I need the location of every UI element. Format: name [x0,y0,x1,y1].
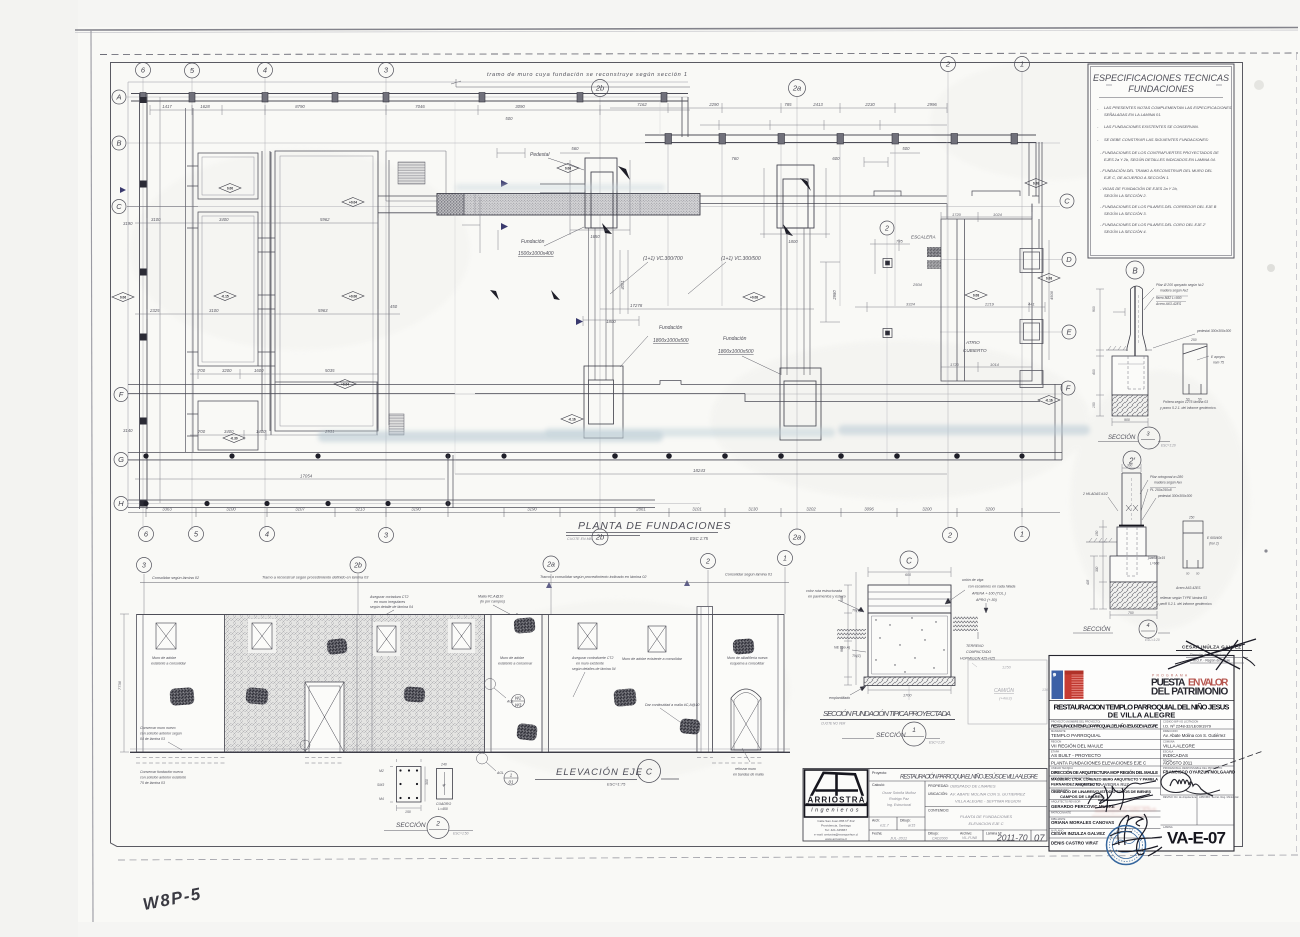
annotations [1155,283,1231,333]
rebar detail 2 [437,769,453,800]
svg-text:250: 250 [1190,338,1197,342]
blue scanner streak [318,184,1090,442]
svg-text:Ingenieros: Ingenieros [811,808,861,814]
svg-text:con solición anterior según: con solición anterior según [140,732,182,736]
svg-text:JUL-2011: JUL-2011 [889,836,907,841]
svg-text:1800x1000x500: 1800x1000x500 [718,349,754,355]
svg-text:Tramo a consolidar según proce: Tramo a consolidar según procedimiento i… [540,575,647,579]
svg-text:1500x1000x400: 1500x1000x400 [518,251,554,257]
svg-text:-0.16: -0.16 [568,417,575,421]
left vertical dim [120,614,129,752]
svg-text:3190: 3190 [123,221,133,226]
wall divider [542,615,567,753]
svg-text:con solición anterior existent: con solición anterior existente [140,776,186,780]
big right bay [549,615,698,753]
svg-text:Arch:: Arch: [872,819,880,823]
svg-text:EJE C, DE ACUERDO A SECCIÓN 1.: EJE C, DE ACUERDO A SECCIÓN 1. [1104,175,1170,180]
svg-text:Proyecto:: Proyecto: [872,771,887,775]
faint construction verticals [455,101,947,474]
svg-text:pedestal 300x300x300: pedestal 300x300x300 [1157,494,1192,498]
svg-text:300: 300 [425,779,429,785]
svg-text:Asegurar cortadura CT2: Asegurar cortadura CT2 [369,595,409,599]
svg-text:Av. Abate Molina con S. Gutiér: Av. Abate Molina con S. Gutiérrez [1163,733,1225,738]
svg-text:ESC=1:20: ESC=1:20 [1161,444,1176,448]
grid circles right [1060,194,1074,208]
svg-text:CESAR INZULZA GALVEZ: CESAR INZULZA GALVEZ [1051,831,1105,836]
svg-text:1800: 1800 [606,319,616,324]
dark signature over stamp [1112,814,1162,856]
svg-text:1: 1 [1020,60,1024,69]
svg-text:CAD2000: CAD2000 [932,837,948,841]
grid axis lines horizontal (faint) [127,97,1062,504]
svg-text:75 de lámina 03: 75 de lámina 03 [140,781,165,785]
svg-text:ESC=1:20: ESC=1:20 [929,741,945,745]
faint cajon box [968,660,1048,724]
svg-text:G: G [118,455,124,464]
svg-text:5963: 5963 [318,308,328,313]
connector wall x688 [682,97,688,137]
svg-text:SECCIÓN: SECCIÓN [396,820,426,829]
svg-text:ESCALERA: ESCALERA [911,235,936,240]
svg-text:2a: 2a [792,533,801,542]
svg-text:E apoyos: E apoyos [1211,355,1225,359]
svg-text:TEMPLO PARROQUIAL: TEMPLO PARROQUIAL [1051,733,1101,738]
svg-text:ELEVACION EJE C: ELEVACION EJE C [968,821,1003,826]
svg-text:Acero A63-42ES: Acero A63-42ES [1175,586,1201,590]
svg-text:3200: 3200 [222,368,232,373]
right corridor walls F-G [947,384,1062,460]
svg-text:pedestal 300x300x300: pedestal 300x300x300 [1196,329,1231,333]
svg-text:fierro 8Ø2 L=900: fierro 8Ø2 L=900 [1156,296,1182,300]
svg-text:AGOSTO 2011: AGOSTO 2011 [1163,761,1193,766]
svg-text:3200: 3200 [922,507,932,512]
svg-text:y pomo 5.2.1. del informe geot: y pomo 5.2.1. del informe geotécnico. [1159,406,1217,410]
svg-text:Dibujó:: Dibujó: [900,819,911,823]
svg-text:Acero A63-42ES: Acero A63-42ES [1155,302,1182,306]
svg-text:AV. ABATE MOLINA CON S. GUTIER: AV. ABATE MOLINA CON S. GUTIERREZ [949,792,1026,797]
svg-text:SECCIÓN: SECCIÓN [876,730,906,739]
svg-text:3140: 3140 [123,428,133,433]
svg-text:LAS PRESENTES NOTAS COMPLEMENT: LAS PRESENTES NOTAS COMPLEMENTAN LAS ESP… [1104,105,1232,110]
signature left col [1088,781,1156,812]
svg-text:4: 4 [265,530,269,539]
svg-text:3200: 3200 [985,507,995,512]
svg-text:Pedestal: Pedestal [530,152,550,158]
svg-text:INDICADAS: INDICADAS [1163,753,1188,758]
diamonds [112,164,1060,443]
pedestal 2b [540,158,617,228]
band left wall continuation [378,196,437,213]
svg-text:Conservar fundación nueva: Conservar fundación nueva [140,770,183,774]
atrium [941,142,1043,388]
svg-text:ESC=1:75: ESC=1:75 [607,782,626,787]
svg-text:DE VILLA ALEGRE: DE VILLA ALEGRE [1108,711,1176,720]
atrium dims [855,212,1049,372]
hatch base [1110,582,1157,609]
svg-text:A: A [115,93,121,102]
svg-text:3363: 3363 [162,507,172,512]
post [1127,286,1146,366]
svg-text:4001: 4001 [620,280,625,289]
svg-text:1024: 1024 [993,212,1003,217]
svg-text:Muro de adobe: Muro de adobe [500,656,524,660]
svg-text:TN(Z): TN(Z) [852,654,861,658]
logo box [805,770,868,817]
svg-text:PLANTA FUNDACIONES ELEVACIONES: PLANTA FUNDACIONES ELEVACIONES EJE C [1051,761,1146,766]
outer roof line [128,82,688,508]
pencil mark bottom left [141,884,203,914]
svg-text:ψ: ψ [443,782,446,787]
faint red stamp [1092,806,1156,816]
svg-text:17278: 17278 [630,303,643,308]
svg-text:emplantillado: emplantillado [829,696,850,700]
row C wall right of band [700,196,947,204]
svg-text:VII REGIÓN DEL MAULE: VII REGIÓN DEL MAULE [1051,743,1103,749]
svg-text:50: 50 [1186,572,1190,576]
svg-text:2: 2 [435,821,440,828]
svg-text:785: 785 [896,239,903,244]
svg-text:madera según №2: madera según №2 [1160,289,1188,293]
svg-text:CUOTE EN MM: CUOTE EN MM [567,537,593,541]
svg-text:900: 900 [1124,418,1130,422]
pilaster [697,607,713,753]
svg-text:7162: 7162 [637,102,647,107]
svg-text:3213: 3213 [355,507,365,512]
chile logo [1052,671,1064,700]
18243 line [455,473,947,475]
svg-text:150: 150 [1092,402,1096,408]
svg-text:300: 300 [1127,464,1133,468]
svg-text:450: 450 [390,304,398,309]
svg-text:17054: 17054 [300,474,313,479]
svg-text:e-mail: arriostra@manquehue.cl: e-mail: arriostra@manquehue.cl [814,833,858,837]
row A wall (double) [131,94,688,102]
svg-text:CAMPOS DE LINARES: CAMPOS DE LINARES [1060,794,1103,799]
grid axis lines vertical (faint) [143,72,1022,530]
svg-text:2a: 2a [546,562,555,569]
pedestal + footing [1117,527,1146,556]
svg-text:07: 07 [1034,833,1045,844]
svg-text:Muro de adobe existente a cons: Muro de adobe existente a consolidar [622,657,683,661]
top edge line [137,614,785,616]
svg-text:+0.04: +0.04 [341,382,349,386]
svg-text:405: 405 [1086,579,1090,585]
svg-text:según detalles de lámina 04: según detalles de lámina 04 [572,667,616,671]
svg-text:2230: 2230 [864,102,875,107]
svg-text:1800x1000x500: 1800x1000x500 [653,338,689,344]
svg-text:1014: 1014 [990,362,1000,367]
svg-text:- FUNDACIONES DE LOS CONTRAFUE: - FUNDACIONES DE LOS CONTRAFUERTES PROYE… [1100,150,1219,155]
svg-text:Conservar muro nuevo: Conservar muro nuevo [140,726,176,730]
sub-detail right [1183,521,1203,568]
svg-text:3101: 3101 [692,507,702,512]
svg-text:ARENA +-100 (TOL.): ARENA +-100 (TOL.) [971,592,1006,596]
svg-text:Pilar Ø 200 apoyado según №2: Pilar Ø 200 apoyado según №2 [1156,283,1204,287]
slab with lines [868,585,951,613]
dims left [844,572,951,694]
svg-text:APRO (+-50): APRO (+-50) [975,598,997,602]
svg-text:RESTAURACIÓN PARROQUIA EL NIÑO: RESTAURACIÓN PARROQUIA EL NIÑO JESÚS DE … [900,774,1039,781]
svg-text:C: C [116,202,122,211]
svg-text:en pavimentos y estuco: en pavimentos y estuco [808,595,846,599]
svg-text:I.D. Nº 2248-32/LE09/1979: I.D. Nº 2248-32/LE09/1979 [1163,724,1212,729]
svg-text:0.06: 0.06 [565,166,571,170]
svg-text:240: 240 [440,763,447,767]
svg-text:1720: 1720 [952,212,962,217]
svg-text:4: 4 [1146,623,1149,629]
svg-text:560: 560 [571,146,579,151]
svg-text:(lo por campos): (lo por campos) [480,600,505,604]
svg-text:SEÑALADAS EN LA LAMINA 01.: SEÑALADAS EN LA LAMINA 01. [1104,112,1161,117]
svg-text:150: 150 [405,810,411,814]
right bay with arch [713,615,785,753]
svg-text:2996: 2996 [926,102,937,107]
row F wall [128,381,947,402]
svg-text:reforzar muro: reforzar muro [735,767,756,771]
top dim [868,567,951,577]
svg-text:Calculó:: Calculó: [872,783,885,787]
svg-text:760: 760 [731,156,739,161]
signature over ORIANA/CESAR rows [1110,815,1132,845]
svg-text:3100: 3100 [151,217,161,222]
grid circles bottom [139,527,154,542]
svg-text:ATRIO: ATRIO [965,340,980,345]
svg-text:F: F [119,390,124,399]
svg-text:1628: 1628 [200,104,210,109]
svg-text:Malla #C,A@10: Malla #C,A@10 [478,595,503,599]
svg-text:3107: 3107 [295,507,305,512]
svg-text:Rodrigo Paz: Rodrigo Paz [889,797,909,801]
svg-text:2b: 2b [595,533,604,542]
foundation dashed below [136,758,762,764]
table [1049,720,1234,839]
svg-text:Ing. Estructural: Ing. Estructural [887,803,911,807]
svg-text:0.00: 0.00 [227,186,233,190]
svg-text:ARQUITECTO REVISOR: ARQUITECTO REVISOR [1051,800,1080,804]
svg-text:con escalones en cada hilada: con escalones en cada hilada [968,585,1015,589]
svg-text:AGL: AGL [496,771,504,775]
svg-text:01: 01 [509,780,514,785]
svg-text:SEGÚN LA SECCIÓN 2.: SEGÚN LA SECCIÓN 2. [1104,193,1147,198]
footing [1112,356,1148,395]
bottom dimension row [128,512,1060,514]
svg-text:W3: W3 [515,703,522,708]
svg-text:+0.04: +0.04 [349,200,357,204]
hatch base [1112,395,1148,416]
svg-text:CUBIERTO: CUBIERTO [963,348,987,353]
svg-text:y perfil 5.2.1. del informe ge: y perfil 5.2.1. del informe geotécnico. [1156,602,1212,606]
svg-text:(hor 2): (hor 2) [1209,542,1219,546]
svg-text:2881: 2881 [635,507,646,512]
svg-text:Fundación: Fundación [723,336,747,342]
right building edge [947,204,1032,220]
svg-text:1400: 1400 [256,429,266,434]
svg-text:SECCIÓN FUNDACIÓN TIPICA PROYE: SECCIÓN FUNDACIÓN TIPICA PROYECTADA [823,709,951,718]
svg-text:COMPACTADO: COMPACTADO [966,650,991,654]
svg-text:700: 700 [198,368,206,373]
svg-text:REVISO: Dir. de Arquitectura: REVISO: Dir. de Arquitectura [1163,795,1197,799]
svg-text:Calle San Juan 865 Nº 312: Calle San Juan 865 Nº 312 [817,819,855,823]
svg-text:3190: 3190 [527,507,537,512]
white bay next [491,615,542,753]
ground [1106,349,1152,351]
windows [156,623,176,649]
svg-text:Pilar octogonal ø=280: Pilar octogonal ø=280 [1150,475,1183,479]
svg-text:3: 3 [142,563,146,570]
svg-text:F: F [1066,384,1071,393]
stairs top [398,162,425,184]
ground left [1086,541,1117,543]
footing 2a [780,368,821,440]
svg-text:TERRENO: TERRENO [966,644,984,648]
row G wall [128,453,1062,461]
svg-text:2b: 2b [353,563,362,570]
svg-text:04 de lámina 03: 04 de lámina 03 [140,737,165,741]
svg-text:700: 700 [198,429,206,434]
svg-text:2: 2 [884,226,889,233]
svg-text:- FUNDACIÓN DEL TRAMO A RECONS: - FUNDACIÓN DEL TRAMO A RECONSTRUIR DEL … [1100,168,1212,173]
dim 300 top [1122,464,1141,472]
svg-text:5962: 5962 [320,217,330,222]
svg-text:136: 136 [1042,688,1048,692]
svg-text:7736: 7736 [117,680,122,690]
svg-text:Poltera según 1275 lámina 03: Poltera según 1275 lámina 03 [1163,400,1208,404]
svg-text:0.08: 0.08 [1046,276,1052,280]
svg-text:E 600/400: E 600/400 [1207,536,1222,540]
signature right col [1161,772,1220,797]
svg-text:Muro de adobe: Muro de adobe [152,656,176,660]
svg-text:B: B [1132,266,1138,275]
svg-text:ESPECIFICACIONES TECNICAS: ESPECIFICACIONES TECNICAS [1093,73,1229,83]
left wall (double) [140,94,148,510]
svg-text:L=600: L=600 [1150,562,1159,566]
svg-text:Dar continuidad a malla #C,A@1: Dar continuidad a malla #C,A@10 [645,703,699,707]
svg-text:600: 600 [832,156,840,161]
svg-text:FUNDACIONES: FUNDACIONES [1128,84,1194,94]
svg-text:2: 2 [945,60,951,69]
svg-text:juanta 3x15: juanta 3x15 [1147,556,1165,560]
table lines [869,769,1047,842]
svg-text:B: B [116,139,121,148]
left dims [123,217,398,434]
svg-text:OBISPADO DE LINARES: OBISPADO DE LINARES [950,784,996,789]
row C line left part [127,206,198,208]
svg-text:3096: 3096 [864,507,874,512]
post [1122,473,1141,525]
dashed trim border right [1296,54,1298,855]
svg-text:1720: 1720 [950,362,960,367]
svg-text:0.08: 0.08 [973,293,979,297]
svg-text:RODRIGO SAAVEDRA RUZ: RODRIGO SAAVEDRA RUZ [1075,782,1129,787]
row H wall [128,500,655,508]
page left edge [91,30,93,922]
svg-text:-0.15: -0.15 [221,294,228,298]
svg-text:+0.06: +0.06 [349,294,357,298]
svg-text:(+4m3): (+4m3) [999,696,1012,701]
svg-text:(1+1) VC.300/700: (1+1) VC.300/700 [643,256,683,262]
svg-text:madera según №x: madera según №x [1154,481,1182,485]
svg-text:color ruta estructurada: color ruta estructurada [806,589,842,593]
wall body with dots [868,613,951,677]
svg-text:+0.08: +0.08 [750,295,758,299]
svg-text:3100: 3100 [226,507,236,512]
svg-text:-0.30: -0.30 [230,436,237,440]
svg-text:según detalle de lámina 04: según detalle de lámina 04 [370,605,413,609]
svg-text:2504: 2504 [912,282,923,287]
pedestal 2a [777,165,814,228]
svg-text:4506: 4506 [1049,290,1054,300]
svg-text:PATROCINANTE: PATROCINANTE [1051,811,1071,815]
svg-text:CAMIÓN: CAMIÓN [994,687,1014,694]
svg-text:Consolidar según lámina 01: Consolidar según lámina 01 [725,573,772,577]
dashed trim border bottom [118,855,1298,860]
top dimension rows [162,102,937,161]
svg-text:Fundación: Fundación [521,239,545,245]
dark blobs [169,617,754,741]
svg-text:APROBO: Secret. Reg. Ministeri: APROBO: Secret. Reg. Ministerial [1199,795,1239,799]
svg-text:VA-E-07: VA-E-07 [1167,829,1226,848]
svg-text:3324: 3324 [906,302,916,307]
svg-text:en muro irregulares: en muro irregulares [374,600,405,604]
svg-text:300: 300 [1095,566,1099,572]
svg-text:existente a conservar: existente a conservar [498,662,533,666]
right wall of hall [378,151,389,431]
svg-text:50: 50 [1196,572,1200,576]
svg-text:1800: 1800 [788,239,798,244]
svg-text:SECCIÓN: SECCIÓN [1108,434,1136,441]
svg-text:750: 750 [1128,611,1134,615]
svg-text:DENIS CASTRO VIRAT: DENIS CASTRO VIRAT [1051,841,1099,846]
svg-text:2980: 2980 [832,290,837,301]
svg-text:CUADRO: CUADRO [436,802,451,806]
svg-text:- FUNDACIONES DE LOS PILARES D: - FUNDACIONES DE LOS PILARES DEL CORO DE… [1100,222,1206,227]
svg-text:3100: 3100 [209,308,219,313]
svg-text:3190: 3190 [411,507,421,512]
svg-text:2 HILADAS #1/2: 2 HILADAS #1/2 [1082,492,1108,496]
blue stamp [1107,826,1146,865]
svg-text:0.06: 0.06 [120,295,126,299]
svg-text:2: 2 [947,531,953,540]
door in hatch [305,682,344,752]
svg-text:ORIANA MORALES CANOVAS: ORIANA MORALES CANOVAS [1051,820,1114,825]
svg-text:3090: 3090 [515,104,525,109]
svg-text:7046: 7046 [415,104,425,109]
svg-text:500: 500 [902,146,910,151]
ground line [130,751,790,753]
left rooms [187,151,378,450]
svg-text:SE DEBE CONSTRUIR LAS SIGUIENT: SE DEBE CONSTRUIR LAS SIGUIENTES FUNDACI… [1104,137,1209,142]
svg-text:-0.16: -0.16 [1045,398,1052,402]
svg-text:2219: 2219 [984,302,995,307]
svg-text:1: 1 [912,727,916,734]
svg-text:441: 441 [1028,302,1035,307]
svg-text:900: 900 [1092,306,1096,312]
svg-text:DEL PATRIMONIO: DEL PATRIMONIO [1151,687,1229,698]
svg-text:M4: M4 [379,797,384,801]
svg-text:PROPIEDAD:: PROPIEDAD: [928,784,949,788]
rebar detail 1 [397,767,422,803]
svg-text:DIRECCIÓN DE ARQUITECTURA MOP: DIRECCIÓN DE ARQUITECTURA MOP REGIÓN DEL… [1051,770,1158,775]
svg-text:1700: 1700 [903,694,912,698]
svg-text:2b: 2b [595,84,604,93]
svg-text:18243: 18243 [693,468,706,473]
svg-text:e11.7: e11.7 [880,824,890,828]
svg-text:2: 2 [705,559,710,566]
dims [1096,289,1148,426]
svg-text:0.08: 0.08 [1033,181,1039,185]
svg-text:ar15: ar15 [908,824,915,828]
svg-text:MAUBERIC LTDA. LORENZO BERG AR: MAUBERIC LTDA. LORENZO BERG ARQUITECTO Y… [1051,778,1158,782]
